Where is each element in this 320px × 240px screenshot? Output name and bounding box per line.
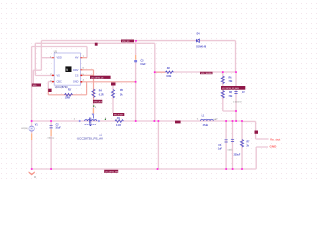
svg-text:SW_NODE: SW_NODE xyxy=(114,114,124,116)
svg-text:GND: GND xyxy=(73,81,79,84)
svg-text:0.000mV: 0.000mV xyxy=(233,101,242,103)
svg-text:VDD_NR: VDD_NR xyxy=(122,41,130,43)
svg-text:0.1R: 0.1R xyxy=(99,94,104,96)
svg-text:Vo_out: Vo_out xyxy=(270,137,280,141)
svg-text:DRV: DRV xyxy=(73,69,79,72)
svg-text:D1N4148: D1N4148 xyxy=(196,45,206,48)
svg-text:UCC28730_PS_AV: UCC28730_PS_AV xyxy=(77,137,103,141)
svg-text:47uH: 47uH xyxy=(203,124,209,127)
svg-text:0.1R: 0.1R xyxy=(116,125,121,127)
svg-text:VDD: VDD xyxy=(57,57,62,60)
svg-text:1V: 1V xyxy=(242,92,245,94)
svg-text:CBC: CBC xyxy=(57,81,62,84)
svg-text:10uF: 10uF xyxy=(55,128,61,130)
svg-text:10uF: 10uF xyxy=(140,64,146,66)
svg-text:UCC28730_CS: UCC28730_CS xyxy=(91,77,104,79)
svg-text:BP(M): BP(M) xyxy=(22,128,28,130)
svg-text:1uF: 1uF xyxy=(218,149,223,151)
svg-text:HV: HV xyxy=(75,57,79,60)
svg-text:UCC28730: UCC28730 xyxy=(55,85,68,89)
svg-text:100k: 100k xyxy=(166,76,172,78)
svg-text:GND: GND xyxy=(270,145,278,149)
svg-text:100k: 100k xyxy=(65,97,71,99)
svg-text:0(bias): 0(bias) xyxy=(48,138,55,140)
svg-text:DRV_AVG: DRV_AVG xyxy=(94,101,103,104)
svg-text:CS: CS xyxy=(75,74,79,77)
svg-text:VS: VS xyxy=(57,74,61,77)
svg-text:UCC28730_VS_AVG: UCC28730_VS_AVG xyxy=(222,87,240,90)
svg-text:0(filt): 0(filt) xyxy=(228,149,233,152)
svg-text:VDD_SENSE: VDD_SENSE xyxy=(201,73,213,75)
svg-text:UCC28730_GND: UCC28730_GND xyxy=(105,171,120,173)
svg-text:220uF: 220uF xyxy=(234,154,241,156)
svg-text:ti: ti xyxy=(66,68,68,72)
